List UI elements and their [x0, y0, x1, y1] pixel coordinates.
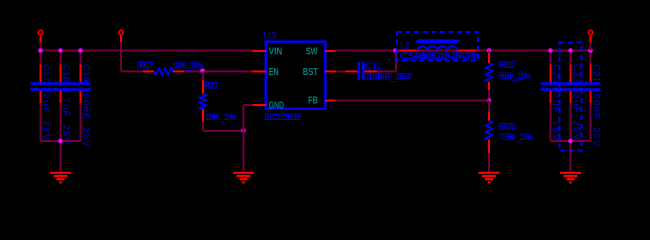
- svg-text:SW: SW: [306, 46, 318, 57]
- svg-text:L2: L2: [401, 41, 410, 52]
- svg-text:10K_1%: 10K_1%: [174, 61, 204, 72]
- svg-text:BST: BST: [303, 67, 318, 78]
- svg-text:C32: C32: [570, 64, 581, 82]
- svg-text:100nF_25V: 100nF_25V: [590, 87, 601, 148]
- svg-text:C17: C17: [40, 64, 51, 82]
- svg-text:C21: C21: [590, 64, 601, 82]
- svg-text:R23: R23: [501, 122, 516, 133]
- svg-text:C11: C11: [365, 61, 381, 72]
- svg-text:100nF_25V: 100nF_25V: [368, 72, 413, 83]
- svg-text:U3: U3: [264, 30, 277, 41]
- svg-text:56K_1%: 56K_1%: [501, 71, 531, 82]
- svg-text:FB: FB: [308, 95, 318, 106]
- svg-text:22uF_25V: 22uF_25V: [40, 87, 51, 141]
- svg-text:C19: C19: [80, 64, 91, 82]
- svg-text:10K_1%: 10K_1%: [208, 112, 237, 123]
- svg-text:R21: R21: [205, 81, 219, 92]
- svg-text:47uF_16V: 47uF_16V: [550, 87, 561, 141]
- svg-text:R17: R17: [140, 61, 155, 72]
- svg-text:GND: GND: [269, 100, 284, 111]
- svg-text:22uF_25V: 22uF_25V: [570, 87, 581, 141]
- svg-text:CSAB0518-2R2M: CSAB0518-2R2M: [402, 51, 478, 62]
- svg-text:100nF_25V: 100nF_25V: [80, 87, 91, 148]
- svg-text:4.7uF_25V: 4.7uF_25V: [60, 87, 71, 145]
- svg-text:EN: EN: [269, 67, 279, 78]
- svg-text:VIN: VIN: [269, 46, 282, 57]
- svg-text:EC2232E: EC2232E: [267, 112, 303, 123]
- svg-text:C20: C20: [550, 64, 561, 82]
- svg-text:R22: R22: [501, 60, 516, 71]
- svg-text:C18: C18: [60, 64, 71, 82]
- svg-text:7.5K_1%: 7.5K_1%: [501, 132, 534, 143]
